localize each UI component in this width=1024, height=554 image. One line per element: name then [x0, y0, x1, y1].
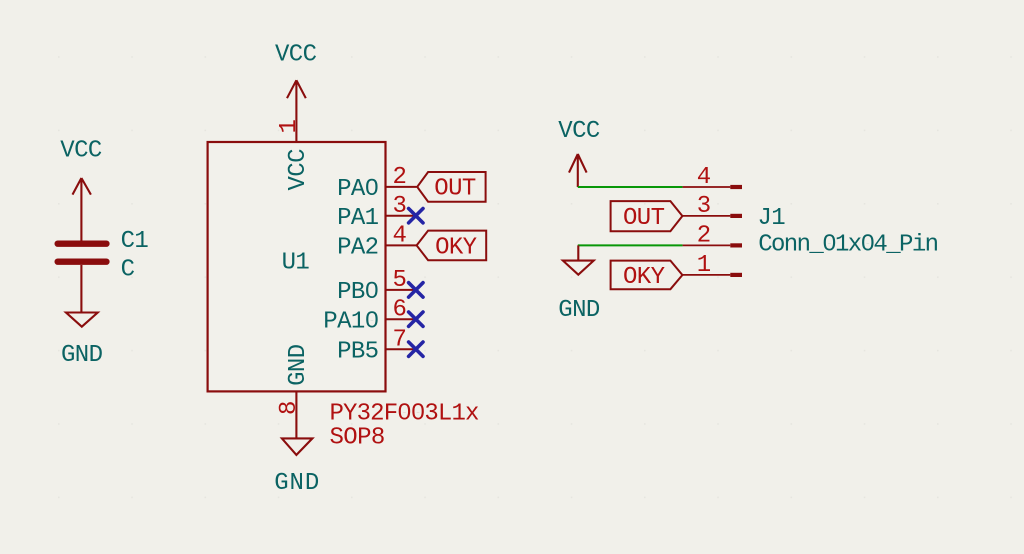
svg-text:PB0: PB0	[337, 279, 378, 306]
svg-text:GND: GND	[285, 344, 312, 386]
no-connect X pin 6	[409, 312, 423, 326]
no-connect X pin 7	[409, 342, 423, 356]
svg-text:6: 6	[392, 296, 406, 323]
svg-text:OKY: OKY	[435, 234, 477, 261]
svg-text:U1: U1	[282, 249, 310, 276]
svg-text:C1: C1	[121, 228, 149, 255]
svg-text:GND: GND	[558, 297, 600, 324]
J1 pin 4 line	[683, 186, 731, 188]
global label OUT at U1	[417, 172, 485, 203]
power symbol VCC at J1	[569, 154, 587, 187]
pin 7 line	[386, 348, 416, 350]
J1 pin 2 pad	[730, 243, 742, 247]
svg-text:J1: J1	[758, 205, 786, 232]
wire VCC to J1 pin 4	[578, 186, 683, 188]
pin 3 PA1	[337, 193, 415, 232]
pin 4 PA2	[337, 223, 416, 262]
svg-text:4: 4	[392, 223, 406, 250]
ground symbol GND at J1	[563, 245, 594, 274]
svg-text:PA10: PA10	[323, 308, 378, 335]
power symbol VCC at C1	[73, 178, 91, 241]
wire GND to J1 pin 2	[578, 244, 683, 246]
no-connect X pin 3	[409, 209, 423, 223]
svg-text:4: 4	[697, 164, 711, 191]
svg-text:3: 3	[392, 193, 406, 220]
svg-text:1: 1	[276, 120, 303, 134]
svg-text:2: 2	[392, 164, 406, 191]
J1 pin 1 line	[683, 274, 731, 276]
svg-text:SOP8: SOP8	[330, 425, 385, 452]
pin 6 line	[386, 318, 416, 320]
global label OKY at U1	[417, 231, 487, 262]
svg-text:Conn_01x04_Pin: Conn_01x04_Pin	[758, 231, 937, 258]
J1 pin 4 pad	[730, 185, 742, 189]
pin 2 PA0	[337, 164, 416, 203]
svg-text:PB5: PB5	[337, 338, 378, 365]
svg-text:GND: GND	[61, 342, 103, 369]
pin 7 PB5	[337, 326, 415, 365]
pin 3 line	[386, 215, 416, 217]
svg-text:OKY: OKY	[623, 264, 665, 291]
svg-text:OUT: OUT	[623, 205, 665, 232]
svg-text:PY32F003L1x: PY32F003L1x	[330, 400, 480, 427]
pin 2 line	[386, 186, 417, 188]
pin 6 PA10	[323, 296, 415, 335]
no-connect X pin 5	[409, 283, 423, 297]
svg-text:1: 1	[697, 252, 711, 279]
svg-text:VCC: VCC	[285, 149, 312, 191]
J1 pin 3 line	[683, 215, 731, 217]
connector J1 pin 3	[683, 193, 742, 220]
wire C1 bottom	[80, 265, 82, 313]
svg-text:VCC: VCC	[275, 41, 317, 68]
pin 5 line	[386, 289, 416, 291]
svg-text:PA2: PA2	[337, 235, 378, 262]
J1 pin 3 pad	[730, 214, 742, 218]
capacitor C1	[55, 241, 110, 265]
power symbol VCC at U1 pin 1	[287, 80, 306, 142]
connector J1 pin 1	[683, 252, 742, 279]
wire U1 pin 8 to GND	[295, 391, 297, 438]
svg-text:PA1: PA1	[337, 205, 379, 232]
J1 pin 1 pad	[730, 273, 742, 277]
svg-text:OUT: OUT	[434, 176, 476, 203]
svg-text:PA0: PA0	[337, 176, 378, 203]
svg-text:VCC: VCC	[60, 138, 102, 165]
svg-text:5: 5	[392, 267, 406, 294]
global label OKY at J1	[611, 261, 683, 291]
global label OUT at J1	[611, 201, 683, 232]
svg-text:VCC: VCC	[558, 118, 600, 145]
connector J1 pin 2	[683, 223, 742, 250]
svg-text:GND: GND	[274, 470, 320, 497]
svg-text:C: C	[121, 257, 135, 284]
pin 5 PB0	[337, 267, 415, 306]
ground symbol GND at C1	[66, 313, 98, 327]
svg-text:2: 2	[697, 223, 711, 250]
IC U1 PY32F003L1x body	[208, 142, 386, 391]
svg-text:8: 8	[276, 401, 303, 415]
svg-text:7: 7	[392, 326, 406, 353]
connector J1 pin 4	[683, 164, 742, 191]
ground symbol GND at U1	[282, 438, 313, 455]
J1 pin 2 line	[683, 244, 731, 246]
pin 4 line	[386, 244, 417, 246]
svg-text:3: 3	[697, 193, 711, 220]
